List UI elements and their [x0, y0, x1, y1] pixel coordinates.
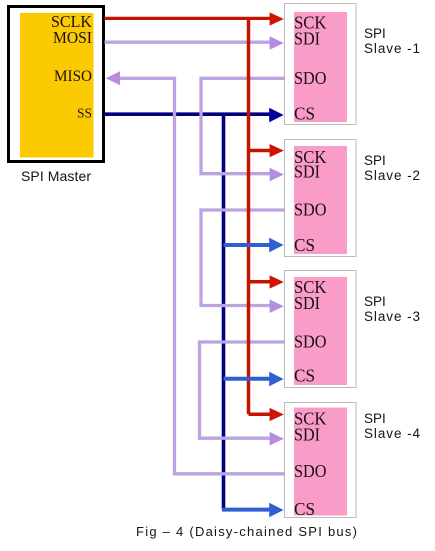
svg-text:SPI: SPI [364, 153, 386, 168]
wire SS vertical trunk [222, 114, 226, 509]
SPI Slave 3 box U3 [285, 271, 357, 388]
svg-text:SDO: SDO [294, 200, 327, 220]
svg-text:SDO: SDO [294, 332, 327, 352]
arrowhead SCLK into slave3 SCK [270, 275, 284, 288]
SPI Slave 1 box U1 [285, 4, 357, 125]
wire SCLK vertical trunk [247, 18, 251, 414]
wire SS branch to slave2 CS [224, 243, 272, 247]
svg-text:SPI: SPI [364, 26, 386, 41]
wire slave1 SDO to slave2 SDI [201, 78, 285, 173]
wire SCLK horizontal to slave1 SCK [105, 17, 273, 20]
label SPI Slave -2 [364, 153, 420, 183]
wire SS horizontal to slave1 CS [105, 112, 272, 116]
wire slave4 SDO return to master MISO [118, 78, 285, 474]
svg-text:MOSI: MOSI [53, 28, 92, 47]
arrowhead MOSI into slave1 SDI [270, 36, 284, 50]
svg-text:Fig – 4 (Daisy-chained SPI bus: Fig – 4 (Daisy-chained SPI bus) [136, 524, 357, 539]
svg-text:Slave -2: Slave -2 [364, 168, 420, 183]
arrowhead SCLK into slave2 SCK [270, 144, 284, 157]
wire slave3 SDO to slave4 SDI [200, 342, 286, 438]
arrowhead SS into slave2 CS [269, 238, 283, 252]
arrowhead into slave4 SDI [270, 432, 284, 446]
svg-text:Slave -1: Slave -1 [364, 41, 420, 56]
arrowhead into master MISO [106, 71, 120, 85]
arrowhead SCLK into slave1 SCK [270, 12, 284, 25]
svg-text:SPI Master: SPI Master [21, 168, 91, 184]
svg-text:SS: SS [77, 107, 92, 122]
arrowhead SS into slave1 CS [269, 108, 283, 122]
svg-text:SDO: SDO [294, 461, 327, 481]
svg-text:SDI: SDI [294, 424, 320, 444]
svg-text:Slave -4: Slave -4 [364, 426, 420, 441]
wire slave2 SDO to slave3 SDI [201, 210, 285, 306]
svg-text:MISO: MISO [54, 68, 92, 85]
wire SS branch to slave4 CS [222, 508, 271, 512]
wire SCLK branch to slave4 SCK [249, 413, 273, 417]
wire SCLK branch to slave2 SCK [249, 149, 273, 153]
label SPI Slave -4 [364, 411, 420, 441]
svg-text:SDI: SDI [294, 293, 320, 313]
label SPI Slave -1 [364, 26, 420, 56]
svg-text:SPI: SPI [364, 411, 386, 426]
svg-text:SDI: SDI [294, 162, 320, 182]
arrowhead SS into slave4 CS [269, 503, 283, 517]
label SPI Slave -3 [364, 294, 420, 324]
SPI Slave 2 box U2 [285, 140, 357, 257]
wire SS branch to slave3 CS [224, 377, 272, 381]
svg-text:CS: CS [294, 499, 315, 519]
svg-text:Slave -3: Slave -3 [364, 309, 420, 324]
arrowhead into slave2 SDI [270, 168, 284, 182]
arrowhead into slave3 SDI [270, 299, 284, 313]
svg-text:CS: CS [294, 235, 315, 255]
svg-text:CS: CS [294, 366, 315, 386]
arrowhead SS into slave3 CS [269, 372, 283, 386]
svg-text:SDO: SDO [294, 68, 327, 88]
SPI Master box U0 [9, 7, 104, 162]
arrowhead SCLK into slave4 SCK [270, 408, 284, 421]
SPI Slave 4 box U4 [285, 403, 357, 518]
svg-text:CS: CS [294, 103, 315, 123]
svg-text:SDI: SDI [294, 29, 320, 49]
svg-text:SPI: SPI [364, 294, 386, 309]
wire SCLK branch to slave3 SCK [249, 280, 273, 284]
wire MOSI master to slave1 SDI [105, 41, 273, 44]
